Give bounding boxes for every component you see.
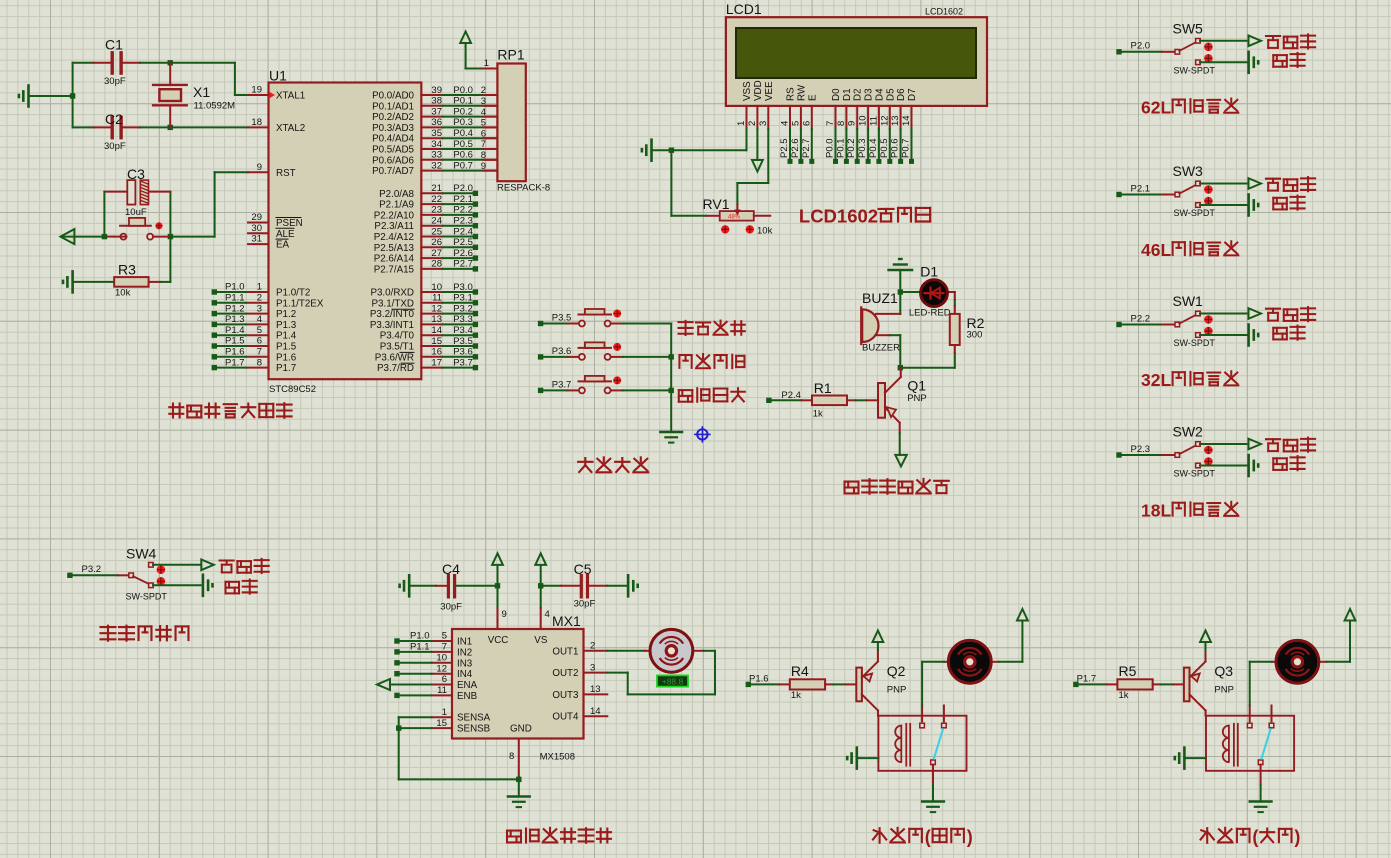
net label P0.5 (LCD) — [879, 138, 890, 158]
svg-text:ENA: ENA — [457, 680, 478, 691]
svg-text:D1: D1 — [920, 264, 938, 280]
junction VSS/RV1 — [669, 148, 674, 153]
wire Q2 collector to power — [877, 644, 879, 650]
node P2.1 — [1116, 192, 1121, 197]
svg-text:MX1508: MX1508 — [540, 752, 575, 763]
svg-text:P0.6/AD6: P0.6/AD6 — [372, 155, 414, 166]
power (Q1 emitter) — [895, 455, 907, 467]
caption 未触发 — [1266, 177, 1315, 191]
caption 触发 — [1273, 456, 1304, 470]
node P0.3 (LCD) — [866, 159, 871, 164]
pin number 33 — [431, 150, 442, 161]
svg-text:P1.5: P1.5 — [276, 342, 297, 353]
svg-text:4: 4 — [780, 121, 791, 126]
svg-text:P3.3/INT1: P3.3/INT1 — [370, 320, 414, 331]
svg-text:P2.2/A10: P2.2/A10 — [374, 210, 415, 221]
pin number 12 (MX1) — [436, 663, 447, 674]
net label P2.6 — [790, 138, 801, 158]
junction VS node — [538, 583, 543, 588]
svg-text:P1.7: P1.7 — [276, 363, 296, 374]
wire SW1 NO to ground — [1200, 334, 1248, 336]
pin marker XTAL1 — [269, 92, 275, 99]
svg-text:D4: D4 — [874, 88, 885, 101]
wire LCD P0.4 — [878, 129, 880, 159]
pin number 1 — [257, 282, 262, 293]
svg-text:R4: R4 — [791, 663, 809, 679]
wire P0.0 to RP1 — [421, 94, 497, 96]
svg-text:P0.1: P0.1 — [835, 138, 846, 158]
svg-text:OUT1: OUT1 — [552, 646, 578, 657]
power +12V (motor) — [1017, 609, 1028, 621]
svg-text:21: 21 — [431, 183, 442, 194]
motor driver MX1 — [452, 613, 584, 739]
mcu pin IN4 stub — [432, 673, 453, 675]
pin number 16 — [431, 347, 442, 358]
junction trunk P3.6 — [669, 354, 674, 359]
wire relay common to ground — [932, 785, 934, 800]
mcu left pin names — [276, 91, 324, 375]
svg-text:RW: RW — [796, 84, 807, 101]
wire LCD P0.7 — [911, 129, 913, 159]
power +5V (VCC) — [492, 553, 503, 565]
svg-text:(: ( — [925, 827, 931, 847]
wire P0.7 to RP1 — [421, 170, 497, 172]
pin name ENA — [457, 680, 478, 691]
pin number 14 — [431, 325, 442, 336]
label MX1508 — [540, 752, 575, 763]
svg-text:SW5: SW5 — [1173, 20, 1204, 36]
svg-text:PNP: PNP — [887, 685, 907, 696]
caption 启停开关 — [679, 388, 745, 402]
wire P3.3 stub — [421, 323, 473, 325]
svg-text:6: 6 — [442, 674, 447, 685]
wire P3.2 stub — [421, 313, 473, 315]
svg-text:7: 7 — [257, 347, 262, 358]
svg-text:P1.6: P1.6 — [276, 352, 297, 363]
svg-text:OUT4: OUT4 — [552, 712, 579, 723]
net label P2.4 — [453, 226, 473, 237]
svg-text:SW-SPDT: SW-SPDT — [1174, 338, 1216, 348]
svg-text:P1.3: P1.3 — [225, 314, 245, 325]
power +5V (Q2) — [873, 631, 884, 643]
pin number 13 (MX1 out) — [590, 684, 601, 695]
svg-text:300: 300 — [967, 329, 983, 340]
switch SW1 — [1173, 293, 1216, 348]
svg-text:R5: R5 — [1119, 663, 1137, 679]
wire RV1 left leg — [671, 150, 719, 216]
svg-text:P3.7/RD: P3.7/RD — [377, 363, 414, 374]
wire IN4 — [399, 673, 432, 675]
node IN4 — [394, 671, 399, 676]
wire P1.0 to IN1 — [399, 640, 432, 642]
svg-text:3: 3 — [590, 662, 595, 673]
svg-text:P3.6: P3.6 — [453, 347, 473, 358]
svg-text:SW2: SW2 — [1173, 424, 1204, 440]
pin name OUT2 — [552, 668, 578, 679]
svg-text:PNP: PNP — [1214, 685, 1234, 696]
wire XTAL1 net (C1 - X1 top - pin19) — [29, 63, 248, 128]
wire relay common to ground — [1260, 785, 1262, 800]
mcu pin IN1 stub — [432, 640, 453, 642]
net label P2.1 — [1131, 183, 1151, 194]
wire P2.7 stub — [421, 268, 473, 270]
pin number 4 (RP1) — [481, 107, 486, 118]
net label P0.2 — [453, 106, 473, 117]
node P1.0 — [212, 289, 217, 294]
ground (C5 right) — [628, 575, 638, 596]
svg-text:P3.0/RXD: P3.0/RXD — [370, 288, 414, 299]
node P3.5 — [538, 321, 543, 326]
svg-text:8: 8 — [257, 357, 262, 368]
wire C4 right to VCC — [456, 585, 498, 587]
svg-text:P3.3: P3.3 — [453, 314, 473, 325]
capacitor C5 — [574, 561, 596, 610]
junction SENSB — [396, 725, 401, 730]
dc motor (R5) — [1276, 640, 1319, 683]
label STC89C52 — [269, 384, 316, 395]
pin number 37 — [431, 106, 442, 117]
node P2.4 — [766, 398, 771, 403]
wire SENSA/SENSB to ground — [399, 717, 519, 779]
pin name IN3 — [457, 658, 473, 669]
wire P3.1 stub — [421, 302, 473, 304]
pin number 39 — [431, 85, 442, 96]
wire R3 left — [73, 281, 114, 283]
pin number 6 (MX1) — [442, 674, 447, 685]
wire P3.7 to button — [543, 389, 579, 391]
svg-text:LCD1602: LCD1602 — [925, 7, 963, 17]
svg-text:ALE: ALE — [276, 229, 295, 240]
svg-text:D0: D0 — [831, 88, 842, 101]
net label P1.1 — [225, 293, 245, 304]
node P2.0 — [1116, 49, 1121, 54]
node P0.1 (LCD) — [844, 159, 849, 164]
toggle marker (SW4 up) — [157, 565, 166, 574]
node P1.0 (MX1) — [394, 638, 399, 643]
svg-text:P1.3: P1.3 — [276, 320, 297, 331]
net label P2.3 — [453, 216, 473, 227]
wire LED to R2 — [947, 292, 955, 314]
transistor Q1 — [878, 368, 927, 433]
node P2.0 — [473, 191, 478, 196]
pin number 15 (MX1) — [436, 718, 447, 729]
svg-text:RP1: RP1 — [497, 47, 524, 63]
transistor Q3 — [1184, 650, 1234, 716]
svg-text:27: 27 — [431, 248, 442, 259]
wire supply to buzzer/LED — [899, 270, 901, 314]
caption 单片机最小系统 — [169, 403, 291, 418]
node P1.6 — [746, 682, 751, 687]
wire P1.6 stub — [217, 356, 246, 358]
node P0.4 (LCD) — [876, 159, 881, 164]
svg-text:10k: 10k — [757, 226, 773, 237]
lcd pin numbers — [736, 115, 912, 126]
svg-text:P2.6/A14: P2.6/A14 — [374, 254, 415, 265]
svg-text:Q2: Q2 — [887, 663, 906, 679]
wire XTAL2 net (C2 - X1 bottom - pin18) — [73, 126, 248, 128]
lcd pin stubs — [747, 106, 912, 129]
wire LCD P0.2 — [856, 129, 858, 159]
wire R2 bottom to collector node — [900, 345, 955, 368]
svg-text:26: 26 — [431, 237, 442, 248]
svg-text:P2.7/A15: P2.7/A15 — [374, 264, 415, 275]
svg-text:P0.5/AD5: P0.5/AD5 — [372, 145, 414, 156]
wire P3.5 stub — [421, 345, 473, 347]
svg-text:D2: D2 — [853, 88, 864, 101]
wire IN3 — [399, 662, 432, 664]
wire VS to power — [540, 566, 542, 586]
pin number 6 — [257, 336, 262, 347]
toggle marker (RV1 +) — [746, 225, 754, 233]
node P3.3 — [473, 322, 478, 327]
net label P0.4 (LCD) — [868, 138, 879, 158]
svg-text:P0.4: P0.4 — [868, 138, 879, 158]
wire R1 to Q1 base — [847, 399, 878, 401]
mx1 pin OUT4 stub — [584, 715, 608, 717]
svg-text:SW4: SW4 — [126, 546, 157, 562]
svg-text:30pF: 30pF — [104, 141, 126, 152]
svg-text:P0.6: P0.6 — [890, 138, 901, 158]
wire P3.2 to SW4 — [72, 574, 129, 576]
wire P0.3 to RP1 — [421, 126, 497, 128]
net label P2.1 — [453, 194, 473, 205]
pin number 10 — [431, 282, 442, 293]
svg-text:P0.0: P0.0 — [825, 138, 836, 158]
net label P2.5 — [779, 138, 790, 158]
net label P0.7 (LCD) — [901, 138, 912, 158]
ground (LCD VSS) — [642, 140, 652, 161]
pin name OUT4 — [552, 712, 579, 723]
svg-text:3: 3 — [758, 121, 769, 126]
svg-text:P2.5: P2.5 — [779, 138, 790, 158]
svg-text:): ) — [1294, 827, 1300, 847]
wire LCD P0.5 — [889, 129, 891, 159]
pin number 19 — [251, 85, 262, 96]
pin number 8 (RP1) — [481, 150, 486, 161]
svg-text:EA: EA — [276, 240, 290, 251]
wire P1.7 to R5 — [1079, 683, 1118, 685]
wire P2.1 stub — [421, 203, 473, 205]
net label P3.7 — [453, 357, 473, 368]
svg-text:P0.2/AD2: P0.2/AD2 — [372, 112, 414, 123]
wire VEE-RV1 wiper — [737, 129, 768, 205]
wire P3.5 to button — [543, 323, 579, 325]
node P2.3 — [1116, 452, 1121, 457]
svg-text:RS: RS — [786, 87, 797, 101]
pin number 9 (MX1) — [502, 609, 507, 620]
pin number 7 (MX1) — [442, 642, 447, 653]
svg-text:34: 34 — [431, 139, 442, 150]
net label P0.4 — [453, 128, 473, 139]
pin number 2 (MX1 out) — [590, 641, 595, 652]
svg-text:PSEN: PSEN — [276, 218, 303, 229]
switch SW5 — [1173, 20, 1216, 75]
svg-text:(: ( — [1252, 827, 1258, 847]
pin number 26 — [431, 237, 442, 248]
capacitor C3 — [125, 166, 149, 218]
pin number 1 (RP1) — [484, 58, 489, 69]
net label P1.7 — [1077, 673, 1097, 684]
toggle marker (SW2 up) — [1204, 446, 1213, 455]
svg-text:10uF: 10uF — [125, 207, 147, 218]
node P3.2 — [67, 573, 72, 578]
wire LCD P2.6 — [800, 129, 802, 159]
power arrow (reset pull) — [60, 229, 74, 244]
wire motor left to relay NC — [1250, 662, 1276, 706]
svg-text:P1.2: P1.2 — [276, 309, 296, 320]
svg-text:P0.7: P0.7 — [901, 138, 912, 158]
pin number 31 — [251, 234, 262, 245]
wire OUT1 to motor — [607, 650, 650, 652]
wire VS pin — [540, 586, 542, 629]
svg-text:38: 38 — [431, 96, 442, 107]
net label P3.6 — [552, 346, 572, 357]
net label P0.3 — [453, 117, 473, 128]
junction X1 bottom — [168, 125, 173, 130]
svg-text:6: 6 — [257, 336, 262, 347]
svg-text:P2.1: P2.1 — [453, 194, 473, 205]
toggle marker (reset button) — [155, 222, 162, 229]
wire P1.1 to IN2 — [399, 651, 432, 653]
svg-text:P0.0/AD0: P0.0/AD0 — [372, 91, 414, 102]
toggle marker (P3.6) — [613, 343, 621, 351]
svg-text:P0.6: P0.6 — [453, 150, 473, 161]
wire P2.2 to SW1 — [1122, 324, 1176, 326]
toggle marker (SW5 up) — [1204, 43, 1213, 52]
wire P0.4 to RP1 — [421, 137, 497, 139]
svg-text:7: 7 — [825, 121, 836, 126]
caption 触发 (SW4) — [225, 580, 256, 594]
dc motor (MX1) — [650, 629, 693, 672]
svg-text:10k: 10k — [115, 288, 131, 299]
svg-text:39: 39 — [431, 85, 442, 96]
svg-text:VS: VS — [534, 635, 548, 646]
pin number 3 (MX1 out) — [590, 662, 595, 673]
svg-text:P2.0: P2.0 — [1131, 41, 1151, 52]
svg-text:C1: C1 — [105, 37, 123, 53]
wire motor left to relay NC — [922, 662, 948, 706]
node P3.4 — [473, 333, 478, 338]
wire R3 right — [149, 237, 171, 282]
pin number 2 (RP1) — [481, 85, 486, 96]
ground (SW1) — [1249, 325, 1259, 346]
svg-text:GND: GND — [510, 724, 532, 735]
svg-text:13: 13 — [890, 115, 901, 126]
svg-text:P0.0: P0.0 — [453, 85, 473, 96]
push button RESET — [114, 218, 170, 240]
net label P0.0 (LCD) — [825, 138, 836, 158]
wire C5 left to VS — [541, 585, 581, 587]
wire P2.0 to SW5 — [1122, 51, 1176, 53]
pin number 4 — [257, 314, 262, 325]
svg-text:P3.7: P3.7 — [552, 379, 572, 390]
caption 直流电机控制 — [507, 828, 611, 843]
wire buzzer bottom to collector — [876, 335, 900, 368]
svg-text:1k: 1k — [1119, 690, 1129, 701]
toggle marker (RV1 -) — [721, 225, 729, 233]
svg-text:RV1: RV1 — [703, 196, 730, 212]
svg-text:SW-SPDT: SW-SPDT — [126, 592, 168, 602]
svg-text:P2.6: P2.6 — [453, 248, 473, 259]
resistor R1 — [812, 380, 847, 420]
wire P2.0 stub — [421, 192, 473, 194]
pin number 9 — [257, 162, 262, 173]
svg-text:PNP: PNP — [907, 393, 927, 404]
svg-text:ENB: ENB — [457, 691, 478, 702]
svg-text:P2.4: P2.4 — [781, 390, 801, 401]
svg-text:P0.2: P0.2 — [846, 138, 857, 158]
svg-text:D1: D1 — [842, 88, 853, 101]
wire P2.5 stub — [421, 246, 473, 248]
svg-text:SENSB: SENSB — [457, 724, 491, 735]
net label P3.2 — [453, 303, 473, 314]
node P2.5 — [473, 245, 478, 250]
pin number 7 (RP1) — [481, 139, 486, 150]
lcd LCD1 body — [726, 1, 987, 106]
relay lever (cyan) — [1261, 728, 1271, 759]
svg-text:D6: D6 — [896, 88, 907, 101]
svg-text:31: 31 — [251, 234, 262, 245]
svg-text:30: 30 — [251, 223, 262, 234]
svg-text:P0.3: P0.3 — [857, 138, 868, 158]
svg-text:OUT3: OUT3 — [552, 690, 579, 701]
wire P0.6 to RP1 — [421, 159, 497, 161]
wire SW3 NO to ground — [1200, 204, 1248, 206]
svg-text:P3.2: P3.2 — [82, 564, 102, 575]
wire SW2 NO to ground — [1200, 465, 1248, 467]
pin name VCC — [488, 635, 509, 646]
wire C4 left — [410, 585, 448, 587]
wire P1.6 to R4 — [751, 683, 790, 685]
svg-text:7: 7 — [442, 642, 447, 653]
caption 独立按键 — [578, 457, 648, 472]
mx1 pin OUT2 stub — [584, 672, 608, 674]
svg-text:P1.1: P1.1 — [225, 293, 245, 304]
svg-text:C5: C5 — [574, 561, 592, 577]
pin number 34 — [431, 139, 442, 150]
wire Q1 emitter to power — [899, 433, 901, 455]
svg-text:10: 10 — [436, 653, 447, 664]
svg-text:37: 37 — [431, 106, 442, 117]
wire button trunk — [670, 324, 672, 431]
wire LCD P2.7 — [811, 129, 813, 159]
node P3.7 — [473, 365, 478, 370]
junction button left — [102, 234, 107, 239]
pin number 17 — [431, 357, 442, 368]
svg-text:SENSA: SENSA — [457, 713, 491, 724]
node P0.0 (LCD) — [833, 159, 838, 164]
svg-text:1k: 1k — [791, 690, 801, 701]
net label P0.7 — [453, 160, 473, 171]
svg-text:P2.0/A8: P2.0/A8 — [379, 189, 414, 200]
relay RL5 — [1206, 706, 1294, 785]
power terminal (SW2 NC) — [1249, 439, 1262, 450]
net label P1.3 — [225, 314, 245, 325]
wire VCC pin — [497, 586, 499, 629]
ground (relay coil) — [847, 748, 857, 769]
svg-text:X1: X1 — [193, 84, 210, 100]
svg-text:VCC: VCC — [488, 635, 509, 646]
caption 62L水位检测 — [1141, 97, 1238, 117]
wire P2.2 stub — [421, 214, 473, 216]
svg-text:15: 15 — [436, 718, 447, 729]
caption LCD1602显示屏 — [799, 206, 930, 227]
node P0.6 (LCD) — [898, 159, 903, 164]
node P1.4 — [212, 333, 217, 338]
svg-text:STC89C52: STC89C52 — [269, 384, 316, 395]
net label P2.0 — [453, 183, 473, 194]
node P0.2 (LCD) — [855, 159, 860, 164]
